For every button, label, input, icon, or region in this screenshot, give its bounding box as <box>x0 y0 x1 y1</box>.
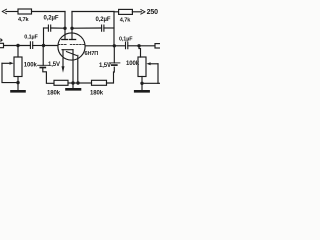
tube anode lead 2 <box>71 28 73 39</box>
tube cathode 1 bar <box>62 49 73 51</box>
svg-text:1,5V: 1,5V <box>99 63 111 69</box>
svg-text:6Н7П: 6Н7П <box>85 51 99 57</box>
node: right grid junction dot <box>113 44 116 47</box>
resistor 180k left <box>54 80 68 85</box>
resistor 180k right <box>92 80 107 85</box>
wire: right pot bottom lead <box>141 77 143 84</box>
tube cathode 2 slanted bar <box>67 52 77 56</box>
svg-text:0,1µF: 0,1µF <box>24 35 38 41</box>
node: right pot top junction dot <box>137 44 140 47</box>
battery 1,5V left: lead from grid node <box>42 46 44 66</box>
node: anode 2 junction dot <box>70 27 73 30</box>
svg-text:100k: 100k <box>24 63 38 69</box>
battery 1,5V left long plate <box>38 64 49 66</box>
wire: battery bottom to 180k left <box>43 68 54 84</box>
wire: anode1 to coupling cap left <box>51 27 64 29</box>
ground left: stem <box>17 83 19 91</box>
potentiometer 100k left box <box>14 57 22 77</box>
svg-text:0,2µF: 0,2µF <box>44 15 59 21</box>
arrow: input mark at left edge <box>0 38 3 42</box>
svg-text:180k: 180k <box>47 91 61 97</box>
tube lead to bottom node 2 <box>77 55 79 83</box>
node: cathode junction dot 2 <box>76 81 79 84</box>
tube anode plate 2 <box>70 39 76 41</box>
battery 1,5V right short plate <box>112 64 117 66</box>
wire: bottom node2 to 180k right <box>78 82 92 84</box>
tube grid 1 dashes <box>58 44 67 46</box>
wire: top rail left to off-page arrow <box>6 11 18 13</box>
ground center: bar <box>67 88 81 91</box>
resistor stub at right edge <box>155 44 161 48</box>
wire: wiper down to bottom rail <box>2 63 18 82</box>
tube grid 2 dashes <box>70 44 85 46</box>
wire: to right edge resistor stub <box>139 45 155 47</box>
wire: riser from cap wire down to grid node left <box>43 28 45 46</box>
wire: anode2 east to right coupling cap <box>74 27 102 29</box>
arrow: left pot wiper <box>2 62 11 64</box>
svg-text:0,1µF: 0,1µF <box>119 36 133 42</box>
svg-text:0,2µF: 0,2µF <box>96 17 111 23</box>
arrow: right pot wiper <box>150 63 159 65</box>
battery 1,5V right lead up to grid node <box>113 46 115 63</box>
capacitor 0,1uF right <box>126 42 128 49</box>
resistor stub at left edge <box>0 43 4 47</box>
battery 1,5V left short plate <box>40 67 45 69</box>
wire: right cap to vertical <box>104 27 114 29</box>
wire: cap left side west <box>44 27 49 29</box>
wire: 0,1uF to grid node <box>33 45 44 47</box>
ground left: bar <box>12 90 25 93</box>
node: cathode junction dot 1 <box>71 81 74 84</box>
wire: right corner down to right grid node <box>113 12 115 46</box>
node: left grid junction dot <box>42 44 45 47</box>
wire: riser anode2 up to east rail <box>71 12 73 29</box>
wire: tube grid2 to right grid node <box>85 45 114 47</box>
wire: top rail from R1 to corner <box>32 11 66 13</box>
svg-text:4,7k: 4,7k <box>18 17 29 23</box>
svg-text:100k: 100k <box>126 61 140 67</box>
ground right: bar <box>135 90 148 93</box>
node: right ground junction dot <box>140 82 143 85</box>
wire: left grid wire from edge box <box>4 45 31 47</box>
potentiometer 100k right box <box>138 57 146 77</box>
wire: rail junction to right resistor <box>114 11 119 13</box>
arrow: off-page left (supply) <box>2 9 6 14</box>
ground right: stem <box>141 83 143 90</box>
arrow: off-page right to 250V <box>141 10 145 15</box>
wire: 180k right to battery column <box>107 67 115 83</box>
tube anode lead 1 <box>64 28 66 39</box>
wire: 0,1uF right to pot node <box>128 45 139 47</box>
wire: 180k left to cathode node <box>68 82 73 84</box>
battery 1,5V right long plate <box>109 62 120 64</box>
wire: bottom rail to right edge <box>158 82 160 84</box>
wire: grid node to tube grid1 <box>44 45 59 47</box>
svg-text:180k: 180k <box>90 91 104 97</box>
ground center: stem <box>72 83 74 88</box>
wire: pot top lead <box>17 46 19 58</box>
tube anode plate 1 <box>62 39 68 41</box>
wire: right wiper down to bottom rail <box>142 64 158 84</box>
tube lead to bottom node 1 <box>72 50 74 83</box>
wire: right rail to arrow <box>132 11 141 13</box>
resistor R 4,7k right <box>119 9 133 14</box>
wire: between bottom nodes <box>73 82 78 84</box>
wire: grid node to 0,1uF right <box>114 45 125 47</box>
wire: right pot top lead <box>139 46 141 57</box>
node: left pot top junction dot <box>16 44 19 47</box>
wire: riser from rail down to anode node left <box>64 12 66 29</box>
tube 6N7P envelope circle <box>58 33 85 60</box>
tube cathode lead with down arrow <box>62 50 64 66</box>
node: anode 1 junction dot <box>63 27 66 30</box>
wire: pot bottom lead <box>17 77 19 83</box>
capacitor 0,2uF right <box>102 25 104 31</box>
svg-text:4,7k: 4,7k <box>120 18 131 24</box>
capacitor 0,1uF left <box>30 42 32 49</box>
resistor R 4,7k left <box>18 9 32 14</box>
node: left ground junction dot <box>16 81 19 84</box>
svg-text:1,5V: 1,5V <box>48 62 60 68</box>
svg-text:250: 250 <box>147 9 159 16</box>
wire: east rail segment to right corner <box>72 11 114 13</box>
capacitor 0,2uF left <box>48 25 50 31</box>
